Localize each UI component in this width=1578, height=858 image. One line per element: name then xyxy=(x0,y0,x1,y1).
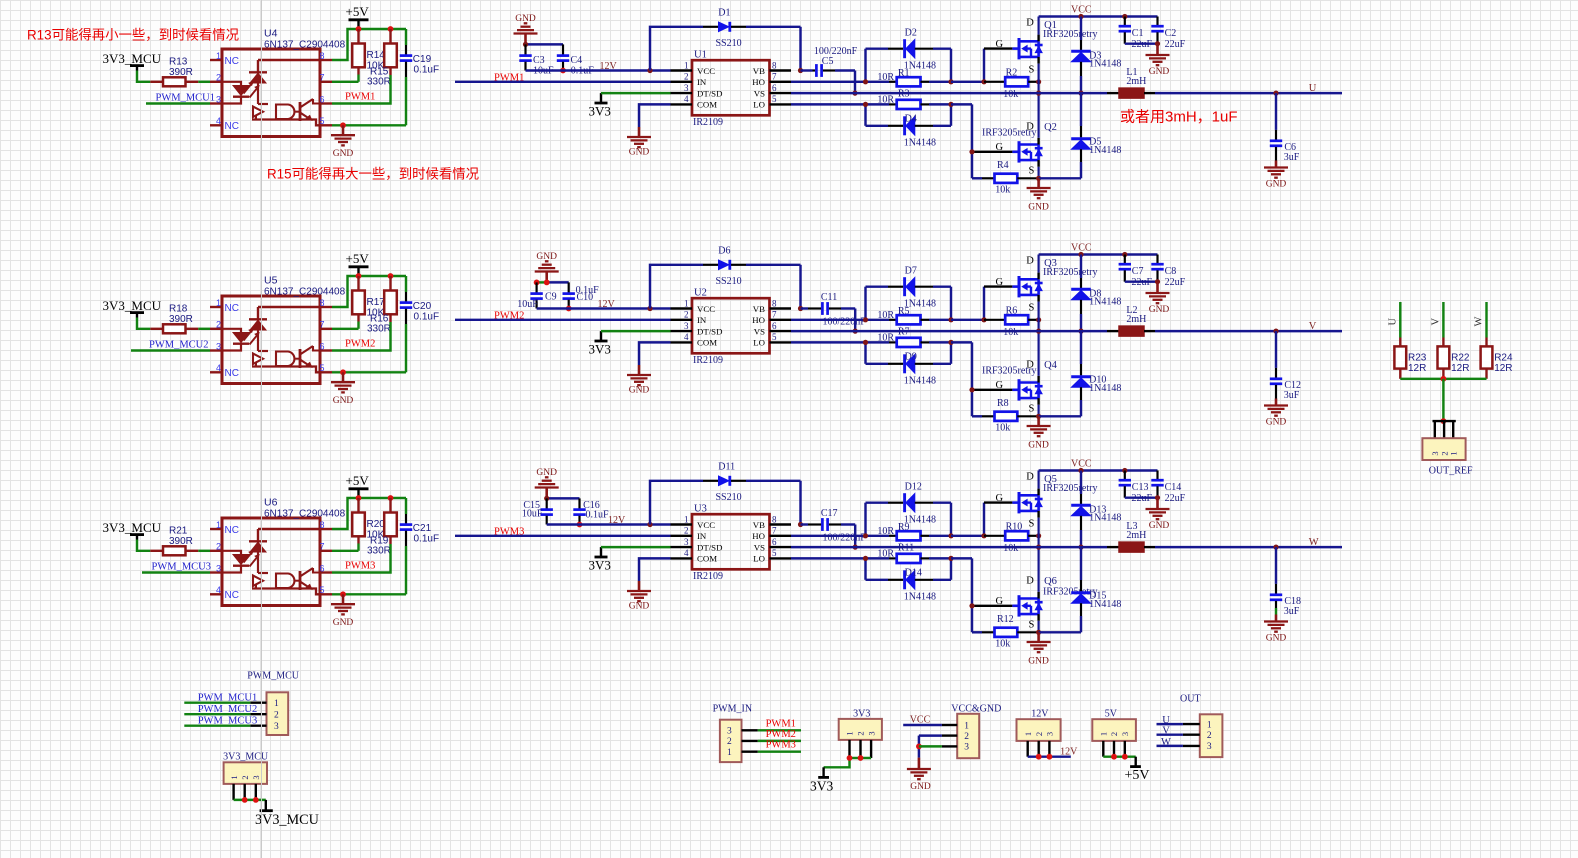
svg-text:1N4148: 1N4148 xyxy=(1089,383,1121,394)
svg-text:+5V: +5V xyxy=(346,251,370,266)
wire 12V rail xyxy=(526,69,671,71)
wire PWM input xyxy=(455,535,671,537)
wire +5V rail xyxy=(332,29,406,60)
connector 5V xyxy=(1092,709,1136,757)
junction xyxy=(356,273,362,279)
svg-text:IRF3205retry: IRF3205retry xyxy=(1043,483,1097,494)
svg-text:D: D xyxy=(1026,576,1034,587)
wire xyxy=(332,75,391,104)
svg-text:VCC: VCC xyxy=(1071,4,1092,15)
wire xyxy=(234,799,266,801)
wire xyxy=(357,544,359,551)
annotation red text 1 xyxy=(27,24,239,44)
wire COM xyxy=(639,342,671,365)
MOSFET Q5 IRF3205 (high side) xyxy=(996,471,1098,548)
svg-text:NC: NC xyxy=(225,368,239,379)
svg-text:7: 7 xyxy=(772,310,777,320)
svg-text:OUT_REF: OUT_REF xyxy=(1429,466,1473,477)
MOSFET Q4 IRF3205 (low side) xyxy=(982,331,1058,416)
junction xyxy=(647,306,652,311)
svg-text:6: 6 xyxy=(772,321,777,331)
svg-text:R13可能得再小一些，到时候看情况: R13可能得再小一些，到时候看情况 xyxy=(27,24,239,44)
svg-text:0.1uF: 0.1uF xyxy=(414,534,440,545)
svg-text:VS: VS xyxy=(754,88,765,98)
wire DT/SD xyxy=(601,330,671,332)
wire xyxy=(137,540,150,551)
capacitor C20 0.1uF xyxy=(400,276,439,372)
junction xyxy=(1036,533,1041,538)
svg-text:3uF: 3uF xyxy=(1284,152,1300,163)
wire 12V rail xyxy=(547,523,671,525)
wire pin5 xyxy=(332,124,406,126)
svg-text:D7: D7 xyxy=(905,265,917,276)
junction xyxy=(1036,317,1041,322)
svg-text:330R: 330R xyxy=(367,77,391,88)
wire COM xyxy=(639,104,671,127)
diode D13 1N4148 xyxy=(1071,471,1121,548)
junction xyxy=(847,755,853,761)
svg-text:C17: C17 xyxy=(821,508,838,519)
junction xyxy=(340,122,346,128)
junction xyxy=(969,149,974,154)
connector 12V xyxy=(1017,709,1061,757)
svg-text:PWM1: PWM1 xyxy=(766,718,796,729)
power port 3V3 xyxy=(589,547,611,572)
power port 3V3 xyxy=(810,767,833,793)
svg-text:10R: 10R xyxy=(877,72,894,83)
svg-text:Q4: Q4 xyxy=(1044,360,1058,371)
svg-text:3: 3 xyxy=(684,83,689,93)
net label W xyxy=(1309,537,1319,548)
junction xyxy=(253,797,259,803)
resistor R1 10R xyxy=(866,68,952,86)
svg-text:2: 2 xyxy=(216,542,221,552)
svg-text:G: G xyxy=(996,380,1004,391)
junction xyxy=(388,26,394,32)
svg-text:1: 1 xyxy=(216,520,221,530)
svg-text:2mH: 2mH xyxy=(1126,314,1146,325)
junction xyxy=(1036,329,1041,334)
net label VCC xyxy=(910,714,931,725)
svg-text:D9: D9 xyxy=(905,352,917,363)
wire net V xyxy=(1442,302,1444,338)
junction xyxy=(948,317,953,322)
svg-text:3V3: 3V3 xyxy=(810,779,833,794)
MOSFET Q3 IRF3205 (high side) xyxy=(996,255,1098,332)
svg-text:0.1uF: 0.1uF xyxy=(576,285,600,296)
wire PWM input xyxy=(455,319,671,321)
svg-text:R1: R1 xyxy=(898,68,910,79)
power port VCC xyxy=(1071,4,1092,15)
svg-text:3V3_MCU: 3V3_MCU xyxy=(103,520,162,535)
junction xyxy=(981,79,986,84)
svg-text:R24: R24 xyxy=(1494,352,1513,363)
svg-text:4: 4 xyxy=(216,116,221,126)
wire VCC rail xyxy=(1039,15,1158,17)
svg-text:100/220nF: 100/220nF xyxy=(814,46,858,57)
diode D2 1N4148 xyxy=(866,27,952,82)
svg-text:12R: 12R xyxy=(1408,363,1426,374)
wire xyxy=(526,43,564,45)
svg-text:IR2109: IR2109 xyxy=(693,571,723,582)
junction xyxy=(863,79,868,84)
svg-text:VCC: VCC xyxy=(1071,458,1092,469)
junction xyxy=(981,317,986,322)
resistor R11 10R xyxy=(866,542,952,563)
wire xyxy=(1157,723,1183,725)
resistor R3 10R xyxy=(866,88,952,109)
svg-text:DT/SD: DT/SD xyxy=(697,326,722,336)
svg-text:D: D xyxy=(1026,471,1034,482)
resistor R12 10k xyxy=(972,614,1039,649)
svg-text:U5: U5 xyxy=(264,275,278,287)
svg-text:10R: 10R xyxy=(877,548,894,559)
junction xyxy=(1047,754,1053,760)
svg-text:S: S xyxy=(1029,519,1035,530)
wire PWM_MCU input xyxy=(142,571,210,573)
wire xyxy=(854,525,856,548)
svg-text:3: 3 xyxy=(684,321,689,331)
ground GND (bypass) xyxy=(535,468,559,498)
svg-text:2: 2 xyxy=(684,526,689,536)
resistor R4 10k xyxy=(972,160,1039,195)
wire xyxy=(184,701,250,703)
net label PWM3 xyxy=(345,561,375,572)
wire net W xyxy=(1485,302,1487,338)
wire phase xyxy=(791,330,1107,332)
svg-text:IN: IN xyxy=(697,315,707,325)
wire LO xyxy=(791,341,866,343)
connector OUT_REF xyxy=(1422,421,1473,476)
svg-text:DT/SD: DT/SD xyxy=(697,88,722,98)
svg-text:IN: IN xyxy=(697,531,707,541)
junction xyxy=(1036,754,1042,760)
svg-text:2: 2 xyxy=(684,72,689,82)
svg-text:V: V xyxy=(1309,321,1317,332)
svg-text:3: 3 xyxy=(1207,742,1212,752)
svg-text:IRF3205retry: IRF3205retry xyxy=(1043,29,1097,40)
junction xyxy=(1036,79,1041,84)
svg-text:8: 8 xyxy=(320,298,325,308)
svg-text:1N4148: 1N4148 xyxy=(1089,297,1121,308)
svg-text:NC: NC xyxy=(225,590,239,601)
wire COM xyxy=(639,558,671,581)
resistor R20 10K xyxy=(352,498,385,544)
svg-text:1: 1 xyxy=(229,775,239,779)
svg-text:1: 1 xyxy=(1023,732,1033,736)
svg-text:1: 1 xyxy=(684,298,689,308)
resistor R9 10R xyxy=(866,522,952,541)
svg-text:6: 6 xyxy=(772,83,777,93)
svg-text:5: 5 xyxy=(320,116,325,126)
wire xyxy=(1125,496,1158,498)
wire 12V rail xyxy=(537,307,671,309)
svg-text:C7: C7 xyxy=(1132,266,1144,277)
svg-text:3V3: 3V3 xyxy=(853,709,870,720)
junction xyxy=(853,545,858,550)
svg-text:D2: D2 xyxy=(905,27,917,38)
svg-text:GND: GND xyxy=(536,252,557,262)
svg-text:3V3: 3V3 xyxy=(589,104,611,119)
resistor R22 12R xyxy=(1438,338,1470,379)
junction xyxy=(863,340,868,345)
svg-text:10k: 10k xyxy=(1003,327,1018,338)
junction xyxy=(1122,754,1128,760)
net label V xyxy=(1309,321,1317,332)
svg-text:NC: NC xyxy=(225,56,239,67)
svg-text:U: U xyxy=(1309,83,1317,94)
wire xyxy=(137,318,150,329)
wire +5V rail xyxy=(332,498,406,529)
wire pin5 xyxy=(332,371,406,373)
svg-text:10k: 10k xyxy=(995,423,1010,434)
power port +5V xyxy=(346,251,370,276)
junction xyxy=(1155,279,1160,284)
net label PWM2 xyxy=(766,729,796,740)
junction xyxy=(863,317,868,322)
svg-text:1N4148: 1N4148 xyxy=(904,376,936,387)
diode D10 1N4148 xyxy=(1071,331,1121,416)
resistor R5 10R xyxy=(866,306,952,325)
wire PWM_MCU input xyxy=(131,349,210,351)
net label PWM3 xyxy=(766,740,796,751)
ground GND xyxy=(907,758,931,792)
junction xyxy=(1441,376,1447,382)
wire xyxy=(547,497,580,499)
svg-text:6N137_C2904408: 6N137_C2904408 xyxy=(264,286,346,297)
net label PWM1 xyxy=(766,718,796,729)
junction xyxy=(1155,41,1160,46)
svg-text:2: 2 xyxy=(856,731,866,735)
svg-text:3: 3 xyxy=(216,563,221,573)
svg-text:3: 3 xyxy=(727,727,732,737)
junction xyxy=(948,556,953,561)
junction xyxy=(798,306,803,311)
svg-text:+5V: +5V xyxy=(346,473,370,488)
wire xyxy=(824,758,872,767)
svg-text:NC: NC xyxy=(225,121,239,132)
wire xyxy=(1039,631,1081,633)
wire phase out xyxy=(1155,330,1342,332)
junction xyxy=(1122,468,1127,473)
connector PWM_IN xyxy=(713,704,758,763)
svg-text:GND: GND xyxy=(333,396,354,406)
svg-text:22uF: 22uF xyxy=(1165,39,1186,50)
ground GND xyxy=(331,125,355,159)
svg-text:C19: C19 xyxy=(413,54,432,65)
svg-text:2: 2 xyxy=(216,73,221,83)
diode D12 1N4148 xyxy=(866,481,952,536)
svg-text:IN: IN xyxy=(697,77,707,87)
svg-text:D14: D14 xyxy=(905,568,922,579)
capacitor C19 0.1uF xyxy=(400,29,439,125)
svg-text:3: 3 xyxy=(274,722,279,732)
junction xyxy=(388,273,394,279)
svg-text:1: 1 xyxy=(964,721,969,731)
svg-text:5: 5 xyxy=(772,548,777,558)
net label PWM1 xyxy=(345,92,375,103)
svg-text:PWM2: PWM2 xyxy=(766,729,796,740)
power port 3V3_MCU (row 5) xyxy=(103,298,162,318)
resistor R8 10k xyxy=(972,398,1039,433)
svg-text:3V3: 3V3 xyxy=(589,342,611,357)
junction xyxy=(853,329,858,334)
svg-text:2mH: 2mH xyxy=(1126,76,1146,87)
svg-text:U: U xyxy=(1388,318,1399,326)
capacitor C13 22uF xyxy=(1119,471,1153,505)
svg-text:R12: R12 xyxy=(997,614,1014,625)
ground GND (bypass) xyxy=(514,14,538,44)
wire xyxy=(758,750,801,752)
svg-text:GND: GND xyxy=(333,618,354,628)
net label PWM1 xyxy=(494,72,524,83)
wire HO xyxy=(791,81,866,83)
junction xyxy=(1078,14,1083,19)
junction xyxy=(560,68,566,74)
svg-text:VCC: VCC xyxy=(697,520,715,530)
MOSFET Q2 IRF3205 (low side) xyxy=(982,93,1057,178)
junction xyxy=(863,556,868,561)
svg-text:2: 2 xyxy=(1207,731,1212,741)
svg-text:U1: U1 xyxy=(694,49,707,60)
svg-text:1N4148: 1N4148 xyxy=(1089,599,1121,610)
wire HO xyxy=(791,319,866,321)
svg-text:7: 7 xyxy=(320,73,325,83)
junction xyxy=(1273,545,1278,550)
svg-text:7: 7 xyxy=(772,72,777,82)
inductor L1 2mH xyxy=(1107,67,1155,98)
wire xyxy=(184,713,250,715)
net label PWM_MCU2 xyxy=(198,704,258,715)
svg-text:LO: LO xyxy=(753,338,765,348)
junction xyxy=(969,603,974,608)
svg-text:R2: R2 xyxy=(1006,67,1018,78)
ground GND xyxy=(331,372,355,406)
svg-text:8: 8 xyxy=(320,51,325,61)
junction xyxy=(798,522,803,527)
svg-text:R5: R5 xyxy=(898,306,910,317)
svg-text:5: 5 xyxy=(320,585,325,595)
ground GND xyxy=(627,581,651,612)
diode D1 SS210 (bootstrap) xyxy=(650,7,801,70)
wire xyxy=(919,745,942,747)
svg-text:GND: GND xyxy=(1266,634,1287,644)
resistor R16 330R xyxy=(367,276,397,335)
svg-text:1N4148: 1N4148 xyxy=(1089,513,1121,524)
svg-text:1: 1 xyxy=(845,731,855,735)
svg-text:1: 1 xyxy=(1099,732,1109,736)
svg-text:2: 2 xyxy=(1109,732,1119,736)
wire pin7 xyxy=(332,550,359,552)
connector PWM_MCU xyxy=(247,671,299,736)
junction xyxy=(1122,14,1127,19)
net label W (rotated) xyxy=(1474,317,1485,327)
junction xyxy=(969,387,974,392)
svg-text:6: 6 xyxy=(320,563,325,573)
sheet divider line xyxy=(261,0,262,858)
junction xyxy=(1036,176,1041,181)
svg-text:C21: C21 xyxy=(413,523,432,534)
annotation red text 3 xyxy=(1120,106,1238,127)
ground GND (bypass) xyxy=(535,252,559,282)
svg-text:NC: NC xyxy=(225,525,239,536)
junction xyxy=(544,280,550,286)
wire gate low xyxy=(951,342,1012,416)
wire xyxy=(357,322,359,329)
ground GND xyxy=(1027,178,1051,212)
junction xyxy=(1155,495,1160,500)
svg-text:PWM_MCU: PWM_MCU xyxy=(247,671,299,682)
svg-text:1N4148: 1N4148 xyxy=(904,138,936,149)
capacitor C2 22uF xyxy=(1151,17,1185,51)
svg-text:VS: VS xyxy=(754,542,765,552)
svg-text:GND: GND xyxy=(536,468,557,478)
wire PWM_MCU input xyxy=(146,102,210,104)
svg-text:2: 2 xyxy=(1034,732,1044,736)
junction xyxy=(523,42,528,47)
svg-text:PWM1: PWM1 xyxy=(345,92,375,103)
junction xyxy=(242,797,248,803)
wire PWM input xyxy=(455,81,671,83)
svg-text:D12: D12 xyxy=(905,481,922,492)
net label PWM_MCU3 xyxy=(152,562,212,573)
svg-text:COM: COM xyxy=(697,338,717,348)
wire VCC xyxy=(903,724,942,726)
svg-text:4: 4 xyxy=(684,548,689,558)
wire VCC rail xyxy=(1039,469,1158,471)
wire LO xyxy=(791,103,866,105)
svg-text:SS210: SS210 xyxy=(716,492,742,503)
wire pin7 xyxy=(332,81,359,83)
svg-text:G: G xyxy=(996,596,1004,607)
svg-text:COM: COM xyxy=(697,554,717,564)
svg-text:D11: D11 xyxy=(718,461,735,472)
junction xyxy=(1111,754,1117,760)
ground GND xyxy=(1146,282,1170,315)
svg-text:C3: C3 xyxy=(533,55,545,66)
svg-text:0.1uF: 0.1uF xyxy=(586,509,610,520)
resistor R24 12R xyxy=(1481,338,1513,379)
svg-text:VCC: VCC xyxy=(697,66,715,76)
svg-text:D: D xyxy=(1026,17,1034,28)
svg-text:U3: U3 xyxy=(694,503,707,514)
svg-text:GND: GND xyxy=(1266,418,1287,428)
junction xyxy=(340,591,346,597)
power port +5V xyxy=(1125,757,1150,783)
gate driver U1 IR2109 xyxy=(671,49,792,128)
power port 3V3_MCU xyxy=(255,800,319,828)
gate driver U3 IR2109 xyxy=(671,503,792,582)
wire xyxy=(184,724,250,726)
svg-text:1: 1 xyxy=(1207,720,1212,730)
svg-text:C11: C11 xyxy=(821,292,837,303)
junction xyxy=(534,280,540,286)
wire 12V xyxy=(1028,755,1071,757)
wire xyxy=(1157,745,1183,747)
junction xyxy=(1078,468,1083,473)
svg-text:10uF: 10uF xyxy=(517,299,538,310)
power port 3V3_MCU (row 4) xyxy=(103,51,162,71)
svg-text:100/220nF: 100/220nF xyxy=(823,316,867,327)
svg-text:+5V: +5V xyxy=(1125,768,1150,783)
svg-text:2: 2 xyxy=(216,320,221,330)
svg-text:10k: 10k xyxy=(1003,89,1018,100)
capacitor C17 100/220nF (bootstrap) xyxy=(801,508,867,543)
svg-text:390R: 390R xyxy=(169,314,193,325)
svg-text:D4: D4 xyxy=(905,114,917,125)
diode D15 1N4148 xyxy=(1071,547,1121,632)
svg-text:PWM2: PWM2 xyxy=(345,339,375,350)
